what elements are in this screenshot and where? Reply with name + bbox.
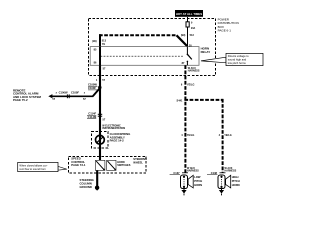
svg-text:RELAY: RELAY: [201, 50, 211, 54]
wire label 4 YE/LG (right branch): [219, 134, 232, 137]
wire 513 feed to relay coil (thick dashed): [99, 34, 177, 36]
wire label 4 YE/LG (left branch): [181, 134, 194, 137]
clockspring assembly (dashed box): [92, 132, 109, 149]
svg-text:513: 513: [190, 34, 195, 37]
connector C100W C100F at junction: [88, 83, 97, 91]
svg-text:PAGE 14-2: PAGE 14-2: [110, 139, 125, 143]
ground below high pitch horn: [219, 189, 224, 196]
wire from tag to fuse: [187, 17, 189, 22]
connector tick C100 right: [84, 93, 86, 95]
horn relay box: [90, 47, 199, 66]
svg-text:PAGE 6-1: PAGE 6-1: [218, 29, 232, 33]
steering wheel (dashed box): [69, 156, 147, 173]
wire 6 YE/LG relay pin 87 down (dashed thick): [184, 65, 186, 173]
label HORN RELAY: [201, 46, 211, 54]
svg-text:C100W: C100W: [59, 91, 68, 95]
wire label 1 57 at PDB exit: [96, 79, 106, 82]
callout: when closed note: [18, 162, 67, 171]
wire label 57 below connector: [103, 118, 106, 121]
svg-text:C100F: C100F: [88, 86, 96, 90]
pin 30: [189, 44, 192, 47]
svg-text:rent flow to sound horn: rent flow to sound horn: [19, 167, 46, 171]
wire to steering column ground: [96, 170, 98, 186]
svg-text:INSTRUMENTATION: INSTRUMENTATION: [102, 127, 125, 130]
connector C100 mark on wire: [67, 94, 69, 98]
label HORN SWITCHES: [117, 161, 131, 167]
connector C137: [170, 171, 188, 175]
wire through clockspring to horn switches: [99, 135, 101, 160]
pin 86: [94, 62, 97, 65]
labels 57 57 under wire: [52, 98, 86, 101]
wire diagonal into pin 30: [177, 35, 188, 46]
relay contact: [187, 47, 192, 66]
pin 85: [94, 48, 97, 51]
svg-text:YE/LG: YE/LG: [224, 134, 232, 137]
svg-text:YE/LG: YE/LG: [187, 134, 195, 137]
note w aux harness at pin 87: [188, 67, 200, 73]
svg-text:HOT AT ALL TIMES: HOT AT ALL TIMES: [176, 12, 202, 16]
svg-text:YE: YE: [102, 43, 106, 46]
svg-text:HORN: HORN: [232, 183, 240, 187]
wire label 57: [103, 68, 106, 71]
svg-text:HORN: HORN: [194, 183, 202, 187]
ground below low pitch horn: [181, 189, 186, 196]
svg-text:C114M: C114M: [88, 115, 97, 119]
label CLOCKSPRING ASSEMBLY: [110, 132, 131, 143]
hot at all times tag: [175, 10, 203, 17]
svg-text:C100F: C100F: [71, 91, 79, 95]
low pitch horn: [181, 175, 194, 189]
callout: directs voltage note: [201, 53, 263, 65]
pin 9: [191, 22, 193, 25]
wire 57 down to clockspring: [99, 88, 101, 136]
svg-text:When closed allows cur-: When closed allows cur-: [19, 163, 47, 167]
svg-text:PAGE 73-1: PAGE 73-1: [71, 163, 86, 167]
horn switches: [95, 160, 116, 170]
note w aux harness at C137: [187, 167, 199, 173]
labels C100W C100F on wire: [59, 91, 80, 95]
label POWER DISTRIBUTION BOX PAGE 6-1: [218, 17, 239, 32]
label SPEED CONTROL: [71, 157, 86, 167]
arrow to remote control alarm module: [48, 94, 52, 98]
wire 57 relay pin 86 down (left): [99, 65, 101, 87]
note w aux harness at C138: [225, 167, 237, 173]
svg-text:PITCH: PITCH: [194, 179, 202, 183]
label HIGH PITCH HORN: [232, 175, 240, 187]
wire label (99) 513 below fuse: [181, 34, 195, 37]
svg-text:GROUND: GROUND: [80, 185, 92, 189]
svg-text:(99): (99): [92, 40, 97, 43]
label STEERING WHEEL: [133, 157, 147, 164]
node junction to alarm system: [98, 86, 101, 89]
connector C138: [207, 171, 226, 175]
svg-text:Directs voltage to: Directs voltage to: [228, 54, 249, 58]
clockspring coil symbol: [96, 135, 105, 144]
wire diagonal from junction: [93, 88, 100, 97]
node splice S441: [177, 100, 183, 103]
svg-text:HIGH: HIGH: [232, 175, 239, 179]
label LOW PITCH HORN: [194, 175, 202, 187]
svg-text:YE/LG: YE/LG: [187, 83, 195, 86]
relay internal link (dashed): [101, 55, 184, 57]
svg-text:sound high and: sound high and: [228, 58, 247, 62]
connector C114F C114M: [98, 114, 102, 116]
svg-text:HARNESS: HARNESS: [225, 170, 237, 173]
svg-text:HARNESS: HARNESS: [188, 69, 200, 72]
svg-text:SWITCHES: SWITCHES: [117, 164, 131, 167]
fuse 20A: [186, 22, 196, 30]
svg-text:S441: S441: [177, 100, 183, 103]
label STEERING COLUMN GROUND: [80, 178, 94, 189]
svg-text:HARNESS: HARNESS: [187, 170, 199, 173]
svg-text:C100W: C100W: [88, 83, 97, 87]
wire label 6 YE/LG: [181, 83, 195, 86]
svg-text:PITCH: PITCH: [232, 179, 240, 183]
wire 57 to remote control alarm: [52, 95, 94, 97]
pin 87: [182, 62, 185, 65]
connector tick C100 left: [56, 93, 58, 95]
power distribution box (dashed enclosure): [88, 19, 215, 76]
svg-text:WHEEL: WHEEL: [133, 160, 143, 164]
svg-text:20A: 20A: [191, 27, 196, 30]
wire label (99) 513 YE at coil corner: [92, 40, 106, 46]
svg-text:low pitch horns: low pitch horns: [228, 61, 247, 65]
wire fuse to relay pin 30: [187, 27, 189, 47]
high pitch horn: [218, 175, 231, 189]
relay coil path: [99, 47, 101, 66]
note w/ electronic instrumentation: [102, 124, 125, 130]
svg-text:PAGE 75-2: PAGE 75-2: [13, 98, 28, 102]
svg-text:(99): (99): [181, 34, 186, 37]
svg-text:LOW: LOW: [194, 175, 201, 179]
ground (steering column): [95, 186, 99, 191]
wire corner down to relay coil: [99, 34, 101, 47]
label REMOTE CONTROL ALARM AND LOCK SYSTEM: [13, 88, 42, 102]
wire branch to high pitch horn (dashed thick): [184, 99, 222, 173]
